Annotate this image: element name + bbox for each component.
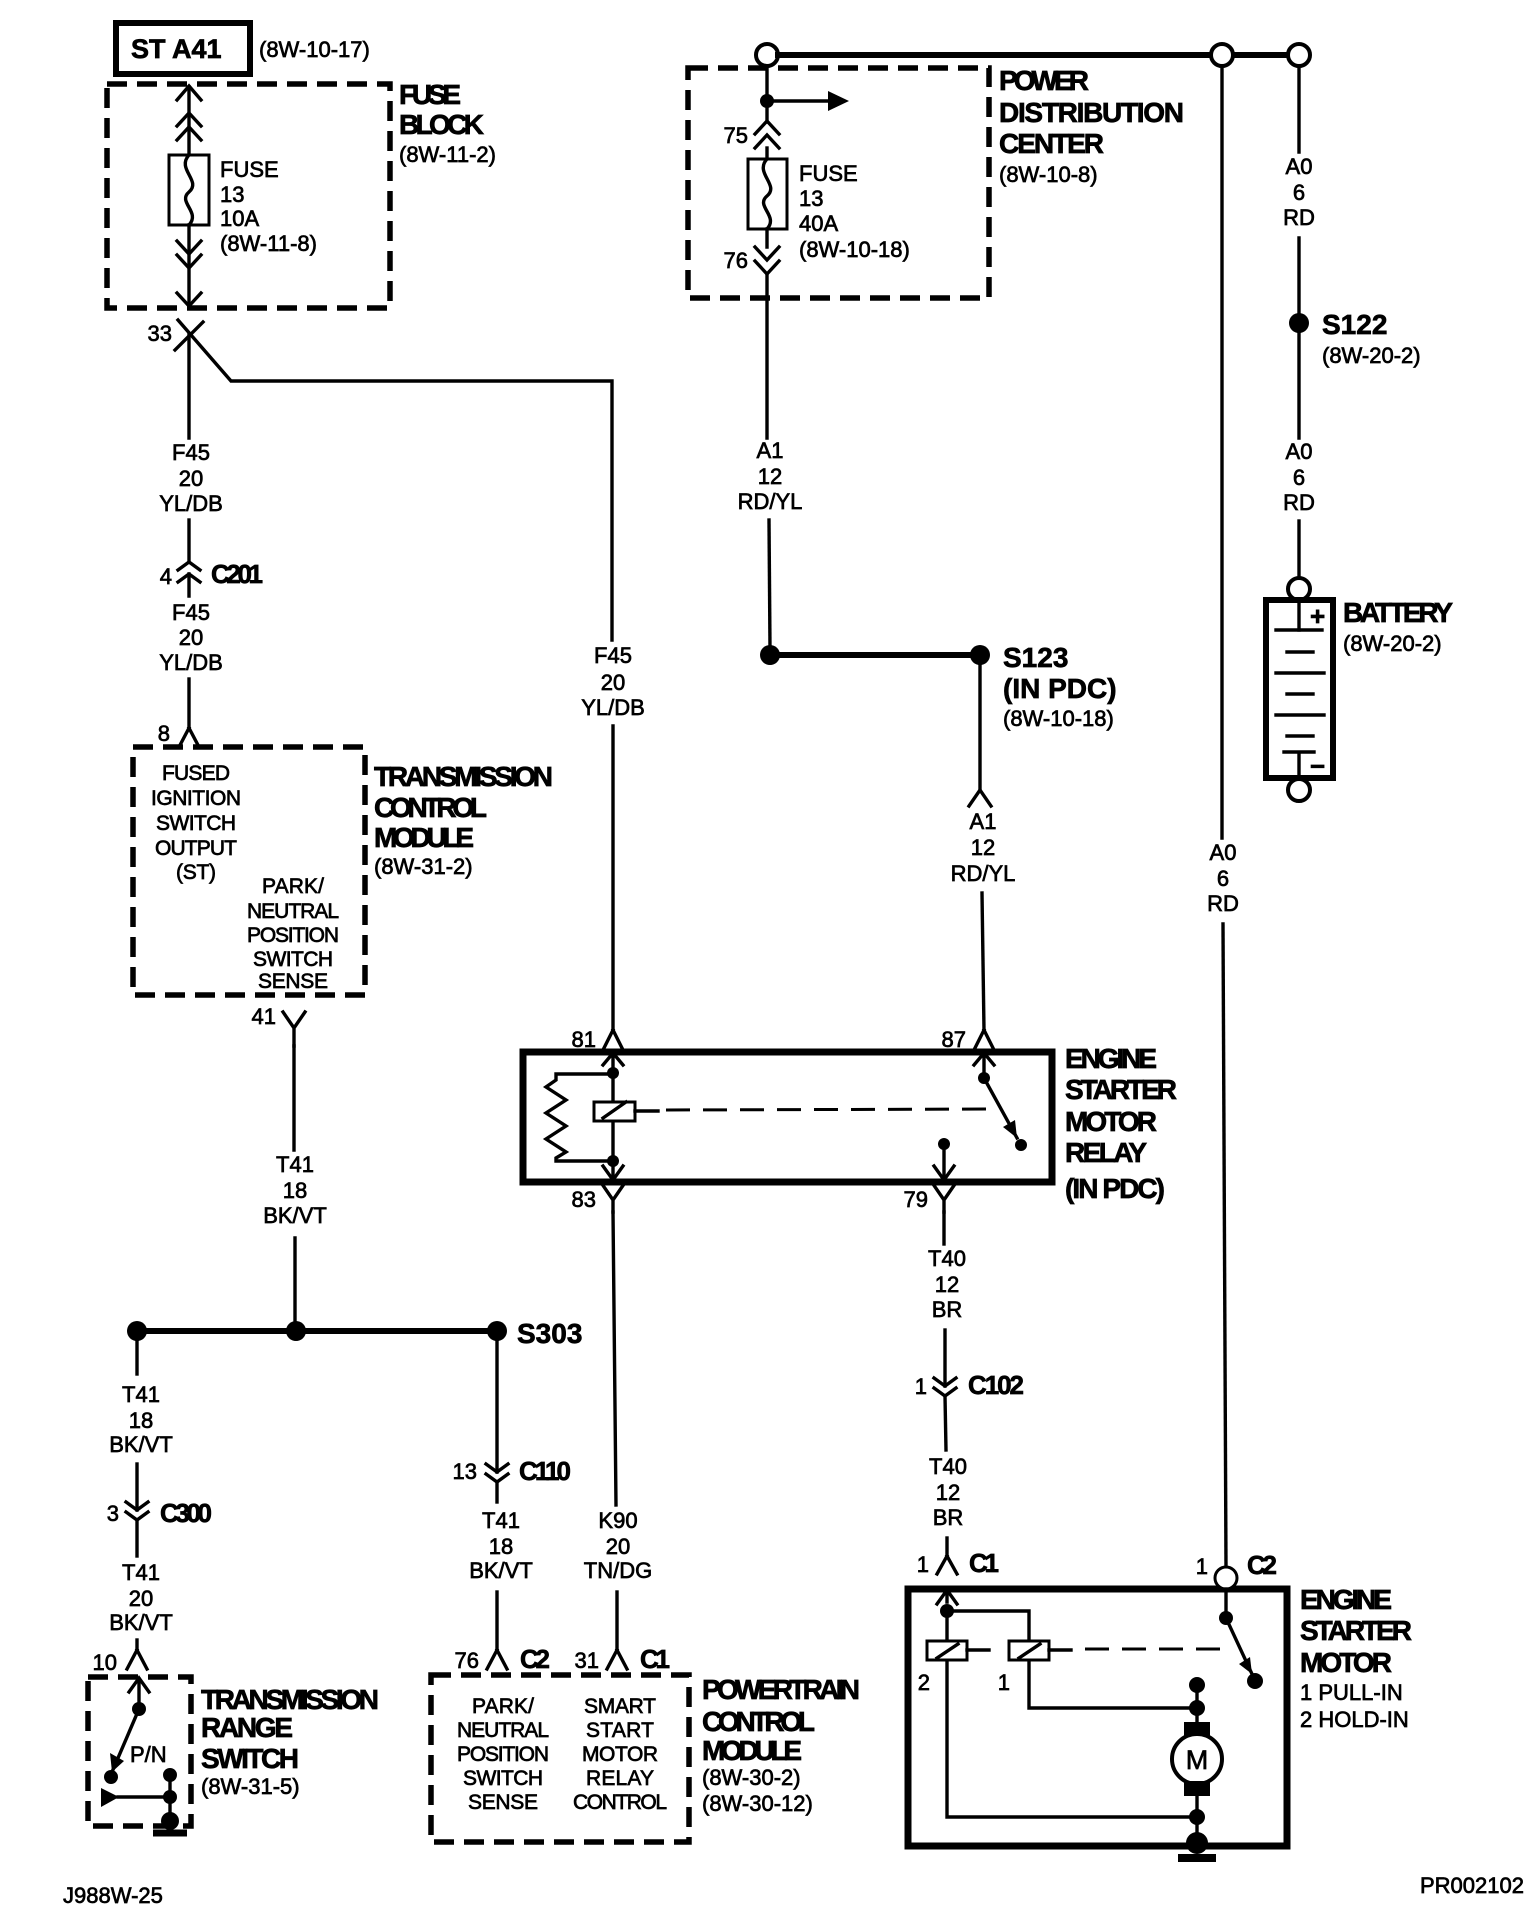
svg-text:SWITCH: SWITCH [156,812,236,835]
starter switch wire from C2 [1224,1589,1227,1613]
svg-text:T41: T41 [276,1152,314,1177]
motor brush top [1184,1722,1210,1737]
svg-text:10: 10 [93,1650,117,1675]
svg-text:12: 12 [936,1480,960,1505]
svg-text:OUTPUT: OUTPUT [155,837,237,860]
wire right branch from S303 [495,1341,498,1472]
starter coil junction dot [940,1604,954,1618]
connector C201 chevrons [178,562,200,596]
starter ground symbol [1178,1854,1216,1862]
svg-text:BR: BR [932,1297,963,1322]
fuse element wavy [185,155,193,225]
relay coil body [594,1102,635,1121]
relay coil right lead [635,1109,658,1112]
svg-text:SWITCH: SWITCH [201,1743,299,1774]
fuse element wavy [763,159,771,229]
svg-text:RANGE: RANGE [201,1712,293,1743]
svg-text:CONTROL: CONTROL [374,792,487,823]
svg-text:TRANSMISSION: TRANSMISSION [374,761,553,792]
wire to TCM pin 8 [187,679,190,728]
svg-text:PARK/: PARK/ [262,875,324,898]
svg-text:S303: S303 [517,1318,582,1349]
svg-text:TN/DG: TN/DG [584,1558,652,1583]
fuse terminal chevrons pin 75 [755,121,779,148]
svg-text:T41: T41 [122,1560,160,1585]
TRS contact arrow triangle [101,1788,119,1807]
svg-text:RELAY: RELAY [1065,1137,1147,1168]
TRS blade arrowhead [110,1753,124,1772]
svg-text:F45: F45 [172,600,210,625]
battery internal plates [1297,604,1300,630]
svg-text:A1: A1 [970,809,997,834]
relay coil wire [611,1074,614,1161]
svg-text:RELAY: RELAY [586,1767,654,1790]
svg-text:J988W-25: J988W-25 [63,1883,163,1908]
connector C102 chevrons [934,1378,956,1396]
starter dashed actuator line [1085,1648,1222,1651]
svg-text:S123: S123 [1003,642,1068,673]
svg-text:1: 1 [1196,1554,1208,1579]
svg-text:STARTER: STARTER [1300,1615,1412,1646]
starter coil 1 body [1009,1641,1049,1660]
svg-text:FUSE: FUSE [399,79,461,110]
svg-text:81: 81 [572,1027,596,1052]
svg-text:C1: C1 [640,1644,670,1674]
wire down from 33 [187,334,190,438]
wire to TRS pin 10 [135,1640,138,1650]
fuse block dashed outline [107,84,390,308]
svg-text:POWERTRAIN: POWERTRAIN [702,1674,860,1705]
pin 87 terminal [974,1030,994,1050]
wire coil 2 to motor bottom [947,1661,1197,1817]
wire to PCM pin 76 [495,1592,498,1650]
svg-text:(8W-20-2): (8W-20-2) [1343,631,1442,656]
coil 1 right lead [1049,1648,1071,1651]
svg-text:1: 1 [915,1374,927,1399]
coil 2 right lead [967,1648,989,1651]
svg-text:−: − [1310,751,1325,781]
svg-text:20: 20 [601,670,625,695]
svg-text:6: 6 [1217,866,1229,891]
svg-text:RD: RD [1283,490,1315,515]
svg-text:SENSE: SENSE [258,970,328,993]
svg-text:MOTOR: MOTOR [1300,1647,1392,1678]
connector C300 chevrons [126,1502,148,1520]
fuse F13 10A body [169,155,209,225]
pin 31 terminal [607,1650,627,1669]
svg-text:M: M [1186,1745,1209,1775]
relay dashed actuator line [666,1109,997,1110]
svg-text:(8W-11-8): (8W-11-8) [220,231,317,256]
svg-text:PR002102: PR002102 [1420,1873,1524,1898]
wire branch diagonal to horizontal run [178,320,612,640]
wire to C300 [135,1464,138,1510]
svg-text:FUSE: FUSE [220,157,279,182]
svg-text:POSITION: POSITION [247,924,339,947]
wire down from S123 [978,665,981,789]
svg-text:START: START [586,1719,654,1742]
inline terminal chevron [969,790,991,806]
power distribution center dashed outline [688,68,989,298]
svg-text:T41: T41 [122,1382,160,1407]
wire top bus to right circles [778,52,1288,58]
wire starter feed lower [1223,924,1226,1567]
wire to S123 junction [769,520,770,648]
svg-text:RD: RD [1283,205,1315,230]
wire below S122 [1297,333,1300,438]
battery positive terminal circle [1288,578,1310,600]
wire from circle into PDC [765,66,768,122]
svg-text:BK/VT: BK/VT [109,1432,173,1457]
starter ground dot [1186,1832,1208,1854]
wire below C102 [945,1396,946,1450]
starter pin 1 C2 terminal circle [1215,1567,1237,1589]
svg-text:12: 12 [758,464,782,489]
relay switch pivot dot [978,1072,990,1084]
TRS wire to ground [168,1775,171,1820]
svg-text:SMART: SMART [584,1695,656,1718]
relay resistor [546,1074,607,1161]
svg-text:20: 20 [179,625,203,650]
svg-text:RD/YL: RD/YL [738,489,803,514]
svg-text:18: 18 [129,1408,153,1433]
relay switch blade end dot [1015,1139,1027,1151]
svg-text:8: 8 [158,721,170,746]
svg-text:CONTROL: CONTROL [702,1706,815,1737]
svg-text:P/N: P/N [130,1742,167,1767]
svg-text:10A: 10A [220,206,259,231]
svg-text:C300: C300 [160,1498,212,1528]
splice S122 dot [1289,313,1309,333]
svg-text:BLOCK: BLOCK [399,109,484,140]
svg-text:NEUTRAL: NEUTRAL [457,1719,549,1742]
wire to starter pin 1 C1 [945,1538,948,1556]
svg-text:A0: A0 [1286,439,1313,464]
svg-text:STARTER: STARTER [1065,1074,1177,1105]
wire to C102 [943,1330,946,1386]
pin 8 terminal [179,728,199,747]
svg-text:BK/VT: BK/VT [263,1203,327,1228]
svg-text:1: 1 [998,1670,1010,1695]
splice S303 bus [137,1328,497,1334]
wire pin 76 down out of PDC [765,229,768,438]
svg-text:+: + [1310,601,1325,631]
starter pin 1 male arrow inside [937,1590,957,1604]
svg-text:CONTROL: CONTROL [573,1791,667,1814]
engine starter motor relay outline [523,1052,1052,1182]
svg-text:(8W-10-8): (8W-10-8) [999,162,1098,187]
splice S123 junction dots [760,645,780,665]
svg-text:C2: C2 [1247,1550,1277,1580]
svg-text:33: 33 [148,321,172,346]
svg-text:20: 20 [129,1586,153,1611]
relay switch blade [984,1078,1017,1138]
arrowhead up to ST A41 [177,86,201,100]
starter switch blade end dot [1247,1673,1263,1689]
starter pin 1 terminal [937,1556,957,1574]
svg-text:MOTOR: MOTOR [1065,1106,1157,1137]
wire to S303 [293,1238,296,1331]
wire to PCM pin 31 [615,1592,618,1650]
wire T41 down from pin 41 [292,1046,295,1150]
svg-text:(8W-10-18): (8W-10-18) [799,237,910,262]
svg-text:C1: C1 [969,1548,999,1578]
starter switch fixed contact dot [1189,1677,1205,1693]
svg-text:A0: A0 [1210,840,1237,865]
svg-text:13: 13 [453,1459,477,1484]
svg-text:(8W-10-18): (8W-10-18) [1003,706,1114,731]
svg-text:83: 83 [572,1187,596,1212]
wire T40 from relay pin 79 [942,1212,945,1244]
motor to ground wire [1195,1796,1198,1843]
svg-text:FUSED: FUSED [162,762,230,785]
svg-text:75: 75 [724,123,748,148]
svg-text:(8W-11-2): (8W-11-2) [399,142,496,167]
svg-text:A1: A1 [757,438,784,463]
svg-text:RD/YL: RD/YL [951,861,1016,886]
svg-text:31: 31 [575,1648,599,1673]
battery negative terminal circle [1288,779,1310,801]
svg-text:12: 12 [935,1272,959,1297]
transmission range switch dashed outline [88,1677,191,1826]
svg-text:C201: C201 [211,559,263,589]
svg-text:(8W-31-5): (8W-31-5) [201,1774,300,1799]
wire below C110 [495,1482,498,1502]
pin 76 terminal [487,1650,507,1669]
svg-text:YL/DB: YL/DB [159,650,223,675]
pin 79 terminal [933,1184,955,1212]
svg-text:(8W-31-2): (8W-31-2) [374,854,473,879]
svg-text:POSITION: POSITION [457,1743,549,1766]
connector C110 chevrons [486,1464,508,1482]
svg-text:SWITCH: SWITCH [253,948,333,971]
wire fuse block feed [187,87,190,155]
svg-text:(IN PDC): (IN PDC) [1003,673,1117,704]
svg-text:BR: BR [933,1505,964,1530]
svg-text:1 PULL-IN: 1 PULL-IN [1300,1680,1403,1705]
motor M body [1172,1734,1222,1784]
svg-text:ENGINE: ENGINE [1300,1584,1392,1615]
svg-text:RD: RD [1207,891,1239,916]
relay coil bottom dot [607,1155,619,1167]
wire coil 1 to switch contact [1029,1661,1197,1708]
svg-text:13: 13 [799,186,823,211]
engine starter motor outline [908,1589,1287,1846]
motor bottom junction dot [1189,1809,1205,1825]
svg-text:(8W-30-12): (8W-30-12) [702,1791,813,1816]
svg-text:FUSE: FUSE [799,161,858,186]
svg-text:MODULE: MODULE [374,822,474,853]
wire K90 from relay pin 83 [613,1212,616,1505]
splice S303 junction dots [127,1321,147,1341]
wire below C300 [135,1520,138,1556]
TRS switch common dot [132,1702,146,1716]
relay contact arrow to pin 79 [934,1144,954,1180]
node terminal circle left (starter feed) [1211,44,1233,66]
pin 83 male arrow inside [603,1161,623,1180]
splice X at pin 33 [175,322,203,350]
svg-text:C2: C2 [520,1644,550,1674]
svg-text:PARK/: PARK/ [472,1695,534,1718]
svg-text:MOTOR: MOTOR [582,1743,658,1766]
svg-text:NEUTRAL: NEUTRAL [247,900,339,923]
pin 41 terminal [283,1012,305,1046]
wire starter feed long drop [1220,66,1223,838]
svg-text:A0: A0 [1286,154,1313,179]
svg-text:IGNITION: IGNITION [151,787,241,810]
svg-text:F45: F45 [172,440,210,465]
svg-text:1: 1 [917,1552,929,1577]
svg-text:POWER: POWER [999,65,1089,96]
powertrain control module dashed outline [431,1675,689,1842]
node terminal circle right (battery feed) [1288,44,1310,66]
svg-text:2 HOLD-IN: 2 HOLD-IN [1300,1707,1409,1732]
fuse terminal chevrons pin 76 [755,247,779,274]
svg-text:MODULE: MODULE [702,1735,802,1766]
svg-text:SENSE: SENSE [468,1791,538,1814]
svg-text:4: 4 [160,564,172,589]
svg-text:T40: T40 [928,1246,966,1271]
starter switch blade [1226,1618,1252,1674]
TRS P/N contact dot [104,1770,118,1784]
svg-text:BATTERY: BATTERY [1343,597,1453,628]
svg-text:ST A41: ST A41 [131,34,222,64]
starter switch pivot dot [1219,1611,1233,1625]
relay coil circuit top dot [607,1067,619,1079]
svg-text:20: 20 [179,466,203,491]
svg-text:YL/DB: YL/DB [159,491,223,516]
svg-text:76: 76 [455,1648,479,1673]
svg-text:C110: C110 [519,1456,571,1486]
wire below fuse [187,225,190,303]
svg-text:(8W-30-2): (8W-30-2) [702,1765,801,1790]
svg-text:(ST): (ST) [176,861,216,884]
svg-text:18: 18 [283,1178,307,1203]
transmission control module dashed outline [133,747,365,995]
pin 83 terminal [602,1184,624,1212]
wire to coil 2 [945,1611,948,1639]
svg-text:6: 6 [1293,465,1305,490]
wire to S122 [1297,238,1300,313]
arrow tap to other circuits [767,99,830,102]
pin 81 terminal [603,1030,623,1050]
wire to C201 [187,520,190,562]
svg-text:13: 13 [220,182,244,207]
svg-text:YL/DB: YL/DB [581,695,645,720]
fuse terminal chevrons 75-side [177,113,201,140]
motor node dot [1189,1700,1205,1716]
svg-text:F45: F45 [594,643,632,668]
TRS contact dots [163,1790,177,1804]
svg-text:T40: T40 [929,1454,967,1479]
fuse terminal chevrons down [177,241,201,268]
starter pull/hold coil 2 body [927,1641,967,1660]
TRS pin 10 male arrow [129,1678,149,1703]
svg-text:76: 76 [724,248,748,273]
svg-text:K90: K90 [598,1508,637,1533]
wire battery feed upper [1297,66,1300,152]
svg-text:87: 87 [942,1027,966,1052]
pin 81 male arrow inside [603,1053,623,1070]
svg-text:6: 6 [1293,180,1305,205]
wire right branch down to relay pin 81 [611,726,614,1030]
node B+ terminal circle at PDC [756,44,778,66]
junction dot in PDC [760,94,774,108]
TRS switch blade P/N [112,1709,139,1772]
motor brush bottom [1184,1781,1210,1796]
svg-text:41: 41 [252,1004,276,1029]
pin 87 male arrow inside [974,1053,994,1074]
svg-text:3: 3 [107,1501,119,1526]
svg-text:(8W-20-2): (8W-20-2) [1322,343,1421,368]
fixed contact to motor node [1195,1685,1198,1722]
svg-text:SWITCH: SWITCH [463,1767,543,1790]
pin 10 terminal [127,1650,147,1669]
TRS ground dot [161,1812,179,1830]
svg-text:79: 79 [904,1187,928,1212]
splice S123 bus [770,652,980,658]
wire to relay pin 87 [982,893,984,1030]
fuse F13 40A body [765,148,768,159]
svg-text:DISTRIBUTION: DISTRIBUTION [999,97,1184,128]
svg-text:40A: 40A [799,211,838,236]
svg-text:TRANSMISSION: TRANSMISSION [201,1684,379,1715]
svg-text:ENGINE: ENGINE [1065,1043,1157,1074]
svg-text:T41: T41 [482,1508,520,1533]
TRS contact wire [118,1795,170,1798]
svg-text:2: 2 [918,1670,930,1695]
wire junction to coil 1 branch [947,1611,1029,1639]
wire to battery positive [1297,521,1300,578]
svg-text:20: 20 [606,1534,630,1559]
svg-text:C102: C102 [968,1370,1024,1400]
wire left branch from S303 [135,1341,138,1374]
svg-text:CENTER: CENTER [999,128,1104,159]
power feed box ST A41 [116,23,250,74]
pin 33 arrow at fuse block edge [177,293,201,306]
svg-text:S122: S122 [1322,309,1387,340]
svg-text:(IN PDC): (IN PDC) [1065,1173,1165,1204]
TRS ground symbol [153,1830,187,1837]
battery outline [1266,600,1333,778]
relay fixed contact dot [938,1138,950,1150]
svg-text:18: 18 [489,1534,513,1559]
svg-text:BK/VT: BK/VT [469,1558,533,1583]
svg-text:12: 12 [971,835,995,860]
svg-text:BK/VT: BK/VT [109,1610,173,1635]
svg-text:(8W-10-17): (8W-10-17) [259,37,370,62]
